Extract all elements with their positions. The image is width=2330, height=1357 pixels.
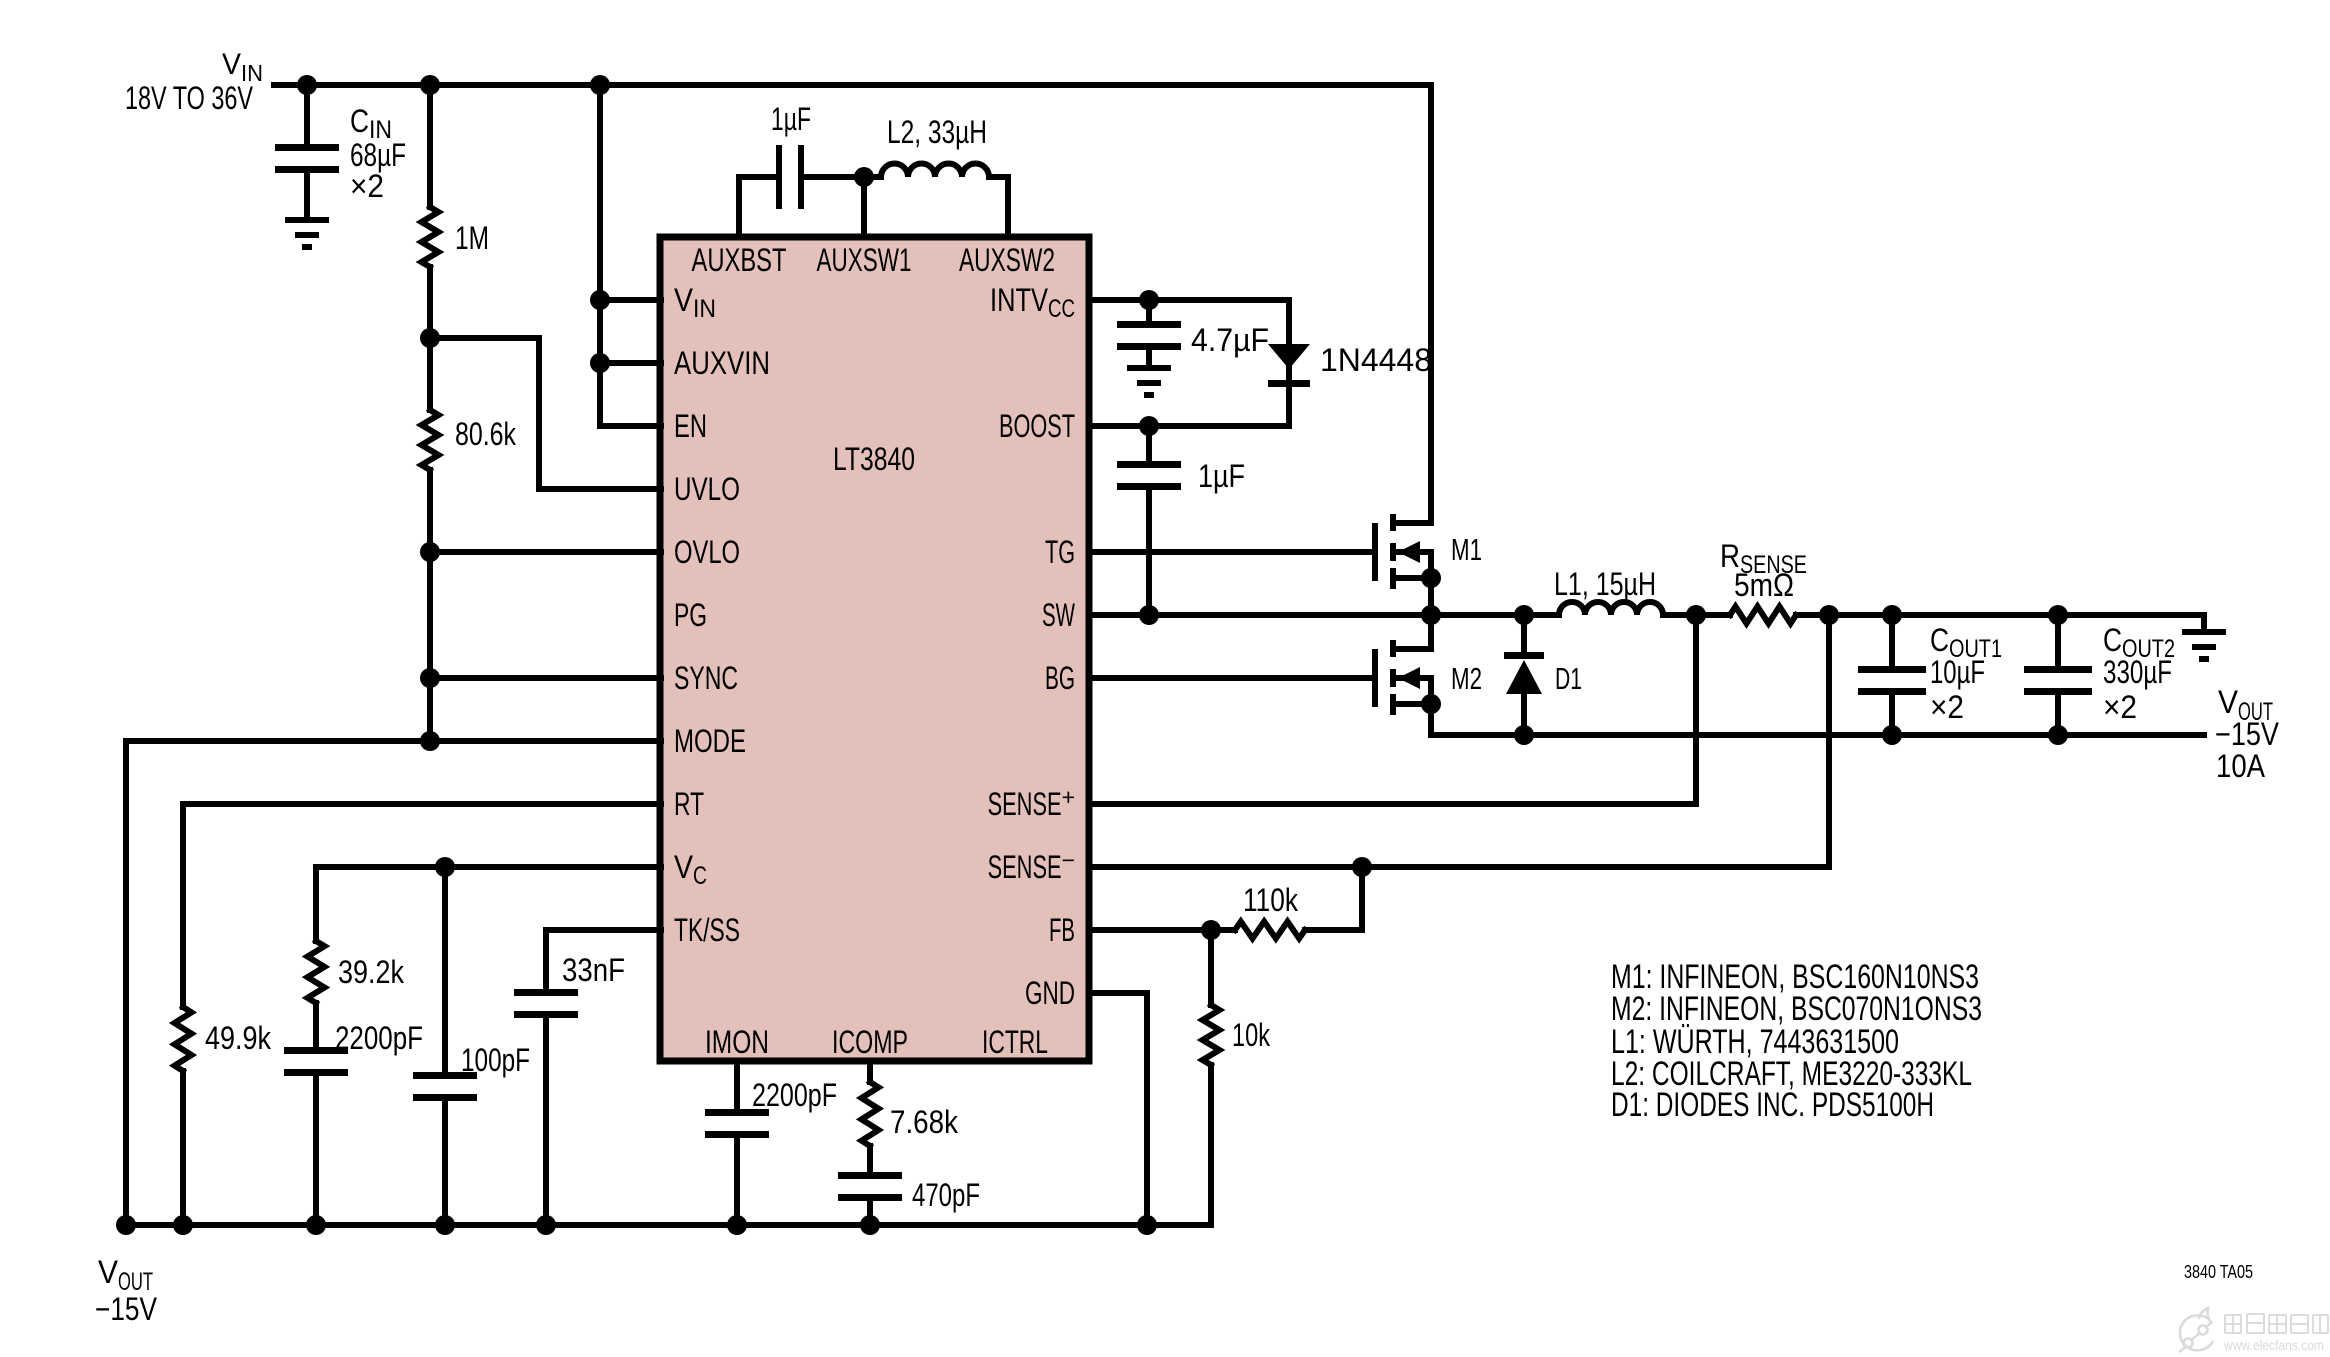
wire D1 anode to VOUT rail [1521, 694, 1527, 735]
wire M2 body-source to VOUT rail [1396, 678, 1431, 735]
wire to SYNC pin [430, 675, 661, 681]
svg-text:D1: DIODES INC. PDS5100H: D1: DIODES INC. PDS5100H [1611, 1086, 1934, 1124]
wire CIN bottom lead [304, 174, 310, 217]
svg-text:1µF: 1µF [771, 101, 811, 137]
wire INTVCC pin through 1N4448 to BOOST node [1089, 300, 1289, 426]
capacitor 100pF [413, 1072, 477, 1079]
svg-text:L2, 33µH: L2, 33µH [887, 114, 987, 150]
junction AUXVIN pin stub [590, 353, 610, 373]
wire SENSE- pin to RSENSE right [1089, 615, 1829, 867]
svg-text:BOOST: BOOST [999, 408, 1075, 444]
wire 10k to bottom VOUT rail [1208, 1065, 1214, 1225]
capacitor 2200pF (VC) [284, 1047, 348, 1054]
wire FB node to 10k [1208, 930, 1214, 1005]
junction OVLO tap [420, 542, 440, 562]
wire 1uF cap to AUXSW1 node [804, 174, 864, 180]
wire UVLO tap to 80.6k [427, 338, 433, 410]
op-amp/regulator IC U1 LT3840 body [660, 237, 1089, 1061]
wire COUT2 top lead [2055, 615, 2061, 666]
wire AUXBST to 1uF cap [739, 177, 776, 237]
junction COUT1 bottom [1882, 725, 1902, 745]
svg-text:SYNC: SYNC [674, 660, 738, 696]
wire MODE pin to bottom rail [126, 741, 661, 1225]
wire 2200pF to bottom rail [313, 1077, 319, 1225]
wire to AUXVIN pin [600, 360, 661, 366]
wire SW node rail [1089, 612, 1559, 618]
wire VC pin to 39.2k [316, 867, 661, 941]
wire 4.7uF to ground [1146, 351, 1152, 365]
junction bottom rail / IMON cap [727, 1215, 747, 1235]
svg-text:10µF: 10µF [1930, 654, 1985, 690]
svg-text:−15V: −15V [95, 1291, 158, 1327]
wire to VIN pin [600, 297, 661, 303]
wire BOOST pin to diode cathode [1089, 423, 1289, 429]
svg-text:FB: FB [1049, 912, 1075, 948]
wire 33nF to bottom rail [543, 1019, 549, 1225]
diode D1 (cathode top, anode bottom) [1504, 652, 1544, 659]
wire ICOMP pin to 7.68k [867, 1061, 873, 1082]
svg-text:PG: PG [674, 597, 707, 633]
wire M2 source lead [1396, 701, 1431, 707]
wire 1uF cap to SW node [1146, 491, 1152, 615]
junction M1 source [1421, 568, 1441, 588]
junction BOOST / 1uF [1139, 416, 1159, 436]
diode 1N4448 (anode top, cathode bottom) [1268, 344, 1310, 369]
junction bottom rail / 33nF [536, 1215, 556, 1235]
junction VC / 100pF [435, 857, 455, 877]
capacitor 1uF (BOOST) [1117, 461, 1181, 468]
wire BG pin to M2 gate [1089, 675, 1372, 681]
junction D1 anode / VOUT rail [1514, 725, 1534, 745]
svg-text:M2: M2 [1451, 661, 1482, 696]
svg-text:ICOMP: ICOMP [832, 1024, 908, 1060]
svg-text:33nF: 33nF [562, 952, 625, 988]
svg-text:10A: 10A [2216, 748, 2266, 784]
wire VC node to 100pF [442, 867, 448, 1072]
svg-text:OVLO: OVLO [674, 534, 740, 570]
svg-text:BG: BG [1045, 660, 1075, 696]
wire FB pin to divider [1089, 927, 1235, 933]
wire 470pF to bottom rail [867, 1202, 873, 1225]
transistor M1 NMOS [1372, 523, 1378, 581]
wire 7.68k to 470pF [867, 1146, 873, 1172]
junction UVLO tap [420, 328, 440, 348]
wire 1M to UVLO tap [427, 267, 433, 338]
wire IMON cap to bottom rail [734, 1139, 740, 1225]
junction VIN rail / CIN [297, 75, 317, 95]
wire M1 source lead [1396, 575, 1431, 581]
wire CIN top lead [304, 85, 310, 144]
junction SW / M1-M2 [1421, 605, 1441, 625]
ground symbol below CIN [285, 217, 329, 223]
junction MODE tap [420, 731, 440, 751]
svg-text:AUXBST: AUXBST [692, 242, 787, 278]
ground symbol below 4.7uF [1127, 365, 1171, 371]
watermark logo (decorative approximation) [2179, 1308, 2213, 1352]
svg-text:TK/SS: TK/SS [674, 912, 740, 948]
wire output rail to ground stub [2201, 615, 2207, 629]
junction L1 / SENSE+ tap [1686, 605, 1706, 625]
svg-text:5mΩ: 5mΩ [1734, 567, 1794, 603]
junction RSENSE / SENSE- tap [1819, 605, 1839, 625]
inductor L2 33uH [881, 164, 989, 178]
wire COUT2 bottom lead [2055, 696, 2061, 735]
svg-text:TG: TG [1045, 534, 1075, 570]
M2 body arrow [1398, 667, 1420, 689]
junction AUXSW1 node [854, 167, 874, 187]
junction COUT2 top [2048, 605, 2068, 625]
svg-text:×2: ×2 [2103, 689, 2137, 725]
capacitor 2200pF (IMON) [705, 1109, 769, 1116]
wire 100pF to bottom rail [442, 1102, 448, 1225]
junction bottom rail / 2200pF [306, 1215, 326, 1235]
wire 80.6k to OVLO/SYNC/MODE column [427, 470, 433, 741]
wire TG pin to M1 gate [1089, 549, 1372, 555]
svg-text:MODE: MODE [674, 723, 746, 759]
resistor 49.9k [175, 1007, 192, 1071]
capacitor 470pF [838, 1172, 902, 1179]
svg-text:M1: M1 [1451, 532, 1482, 567]
resistor 110k [1235, 922, 1305, 939]
wire TK/SS pin to 33nF [546, 930, 661, 989]
svg-text:UVLO: UVLO [674, 471, 740, 507]
ground symbol at output [2182, 629, 2226, 635]
svg-text:4.7µF: 4.7µF [1191, 322, 1269, 358]
wire SENSE+ pin to RSENSE left [1089, 615, 1696, 804]
wire GND pin to bottom rail [1089, 993, 1147, 1225]
svg-text:18V TO 36V: 18V TO 36V [125, 80, 253, 116]
wire to OVLO pin [430, 549, 661, 555]
junction FB node [1201, 920, 1221, 940]
svg-text:1N4448: 1N4448 [1320, 342, 1432, 378]
svg-text:330µF: 330µF [2103, 654, 2172, 690]
svg-text:SW: SW [1042, 597, 1076, 633]
junction SENSE- / 110k [1352, 857, 1372, 877]
junction M2 source [1421, 694, 1441, 714]
junction VIN pin stub [590, 290, 610, 310]
svg-text:−15V: −15V [2215, 716, 2280, 752]
wire COUT1 top lead [1889, 615, 1895, 666]
svg-text:ICTRL: ICTRL [982, 1024, 1048, 1060]
junction VIN rail / IC VIN branch [590, 75, 610, 95]
wire IMON pin to 2200pF [734, 1061, 740, 1109]
junction VIN rail / 1M divider [420, 75, 440, 95]
capacitor COUT2 330uF x2 [2024, 666, 2092, 673]
resistor RSENSE 5mOhm [1730, 607, 1796, 624]
capacitor 33nF [514, 989, 578, 996]
svg-text:39.2k: 39.2k [338, 954, 405, 990]
wire M1 drain lead [1396, 520, 1431, 526]
junction bottom rail left end / MODE branch [116, 1215, 136, 1235]
junction SW / boost cap [1139, 605, 1159, 625]
svg-text:D1: D1 [1555, 661, 1582, 696]
svg-text:7.68k: 7.68k [890, 1104, 959, 1140]
svg-text:GND: GND [1025, 975, 1075, 1011]
junction INTVCC / 4.7uF [1139, 290, 1159, 310]
wire L1 to RSENSE [1663, 612, 1730, 618]
svg-text:AUXSW1: AUXSW1 [817, 242, 912, 278]
svg-text:10k: 10k [1232, 1017, 1271, 1053]
svg-text:2200pF: 2200pF [752, 1077, 837, 1113]
svg-text:80.6k: 80.6k [455, 416, 517, 452]
wire down to AUXSW1 pin [861, 177, 867, 237]
capacitor 4.7uF [1117, 321, 1181, 328]
svg-text:470pF: 470pF [912, 1177, 980, 1213]
junction SYNC tap [420, 668, 440, 688]
svg-text:1µF: 1µF [1198, 458, 1245, 494]
wire SW to D1 cathode [1521, 615, 1527, 652]
svg-text:1M: 1M [455, 220, 489, 256]
capacitor COUT1 10uF x2 [1858, 666, 1926, 673]
junction COUT1 top [1882, 605, 1902, 625]
svg-text:RT: RT [674, 786, 704, 822]
resistor 39.2k [308, 941, 325, 1003]
wire RSENSE to output ground rail [1796, 612, 2204, 618]
junction bottom rail / 470pF [860, 1215, 880, 1235]
junction bottom rail / 100pF [435, 1215, 455, 1235]
junction bottom rail / 49.9k [173, 1215, 193, 1235]
svg-text:2200pF: 2200pF [335, 1020, 423, 1056]
wire 110k to SENSE- node [1305, 867, 1362, 930]
wire M1 body-source to SW [1396, 552, 1431, 615]
wire UVLO tap to UVLO pin [430, 338, 661, 489]
junction COUT2 bottom [2048, 725, 2068, 745]
resistor 7.68k [862, 1082, 879, 1146]
capacitor 1uF (AUXBST) [776, 145, 782, 209]
svg-text:100pF: 100pF [461, 1042, 530, 1078]
wire 49.9k to bottom rail [180, 1071, 186, 1225]
wire M2 drain lead to SW [1396, 615, 1431, 649]
wire VOUT -15V rail [1431, 732, 2204, 738]
wire BOOST to 1uF cap [1146, 426, 1152, 461]
svg-text:49.9k: 49.9k [205, 1020, 272, 1056]
svg-text:×2: ×2 [350, 168, 384, 204]
svg-text:×2: ×2 [1930, 689, 1964, 725]
resistor 10k [1203, 1005, 1220, 1065]
wire AUXSW1 node to L2 [864, 174, 881, 180]
wire VIN rail down to EN pin [600, 85, 661, 426]
svg-text:AUXSW2: AUXSW2 [959, 242, 1055, 278]
wire bottom VOUT -15V rail [126, 1222, 1211, 1228]
inductor L1 15uH [1559, 602, 1663, 615]
resistor 80.6k [422, 410, 439, 470]
svg-text:www.elecfans.com: www.elecfans.com [2223, 1337, 2324, 1353]
wire to 4.7uF [1146, 300, 1152, 321]
M1 body arrow [1398, 541, 1420, 563]
capacitor CIN 68uF x2 [275, 144, 339, 151]
wire VIN rail to 1M [427, 85, 433, 207]
svg-text:L1, 15µH: L1, 15µH [1554, 566, 1656, 602]
svg-text:110k: 110k [1243, 882, 1299, 918]
wire VIN top rail from input to M1 drain [274, 85, 1431, 523]
svg-text:3840 TA05: 3840 TA05 [2184, 1262, 2253, 1282]
svg-text:AUXVIN: AUXVIN [674, 345, 770, 381]
svg-text:LT3840: LT3840 [833, 441, 915, 477]
svg-text:IMON: IMON [705, 1024, 769, 1060]
svg-text:EN: EN [674, 408, 707, 444]
junction SW / D1 cathode [1514, 605, 1534, 625]
junction bottom rail / GND wire [1137, 1215, 1157, 1235]
transistor M2 NMOS [1372, 649, 1378, 707]
wire RT pin left and down to 49.9k [183, 804, 661, 1007]
wire L2 to AUXSW2 pin [989, 177, 1008, 237]
wire 39.2k to 2200pF [313, 1003, 319, 1047]
resistor 1M [422, 207, 439, 267]
wire COUT1 bottom lead [1889, 696, 1895, 735]
